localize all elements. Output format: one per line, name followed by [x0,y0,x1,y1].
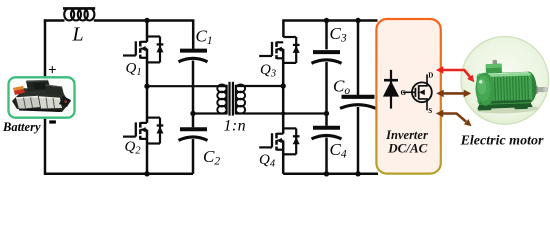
front end bell [475,72,495,106]
svg-text:DC/AC: DC/AC [387,140,427,155]
wire: bottom rail (secondary side) [283,173,378,176]
secondary winding [235,85,237,115]
capacitor C2 [179,129,208,140]
node: C3/C4 midpoint junction [324,111,329,116]
svg-text:L: L [72,24,84,46]
inductor L [63,8,95,20]
wire: capacitor midpoint to transformer primary bottom [193,112,227,114]
node: capacitor midpoint junction [190,111,195,116]
node: left midpoint junction [144,84,149,89]
transistor Q4 (MOSFET with body diode) [259,128,300,154]
node: crossover blob at Q3/Q4 leg [281,111,285,115]
wire: Q1 drain drop [146,21,149,42]
svg-text:D: D [428,72,433,80]
electric motor art [475,58,549,114]
battery box [9,77,75,117]
wire: C4 bottom to bottom rail [325,138,328,174]
svg-text:Battery: Battery [2,120,41,134]
wire: top rail from inductor to C1 corner [94,21,193,49]
wire: Co bottom to bottom rail [357,107,360,174]
node: right midpoint junction [281,83,286,88]
wire: top-left rail segment to inductor [44,19,65,22]
node: Q2 source rail junction [144,171,149,176]
arrow phase B (brown) [436,90,471,98]
arrow phase C (brown) [436,110,472,127]
motor background circle [461,37,549,125]
capacitor C4 [312,128,342,139]
node: C3 top junction [324,18,329,23]
svg-text:1:n: 1:n [224,118,247,135]
wire: Q2 source to bottom rail [146,130,149,174]
shadow [477,105,539,115]
svg-text:+: + [48,63,57,79]
wire: C3 bottom to C4 top [325,62,328,126]
wire: battery positive lead (vertical, top-left) [44,19,47,77]
diode D (inside inverter) [383,70,399,109]
wire: Q4 source to bottom rail [282,141,285,174]
transistor Q3 (MOSFET with body diode) [259,37,300,63]
mosfet M (inside inverter, circled) [403,74,432,110]
node: Co rail junction [355,171,360,176]
wire: Q3 source to Q4 drain [282,49,285,134]
wire: top-right rail from Q3 corner to inverter [283,21,377,38]
node: C4 rail junction [324,171,329,176]
wire: transformer secondary top to right midpoint [236,85,284,87]
node: Co top junction [355,18,360,23]
capacitor C3 [312,52,342,63]
arrow phase A (red) [436,66,475,82]
wire: battery negative lead (vertical, bottom-left) [44,117,47,174]
wire: bottom rail (primary side) [44,173,193,176]
svg-text:G: G [401,89,407,97]
primary winding [226,85,228,115]
feet [477,100,533,109]
battery photo art [12,80,71,112]
wire: C1 bottom to C2 top [192,61,195,128]
main finned body [476,72,532,105]
capacitor Co [340,97,376,109]
core bars [228,82,230,116]
right end cap [521,71,537,103]
inverter DC/AC block [376,19,440,174]
wire: Co top drop [357,21,360,96]
transformer T (1:n) [217,82,245,116]
wire: C3 drop from rail [325,21,328,50]
wire: Q1 source to Q2 drain (left leg midpoint) [146,49,149,123]
shaft [535,87,546,93]
transistor Q1 (MOSFET with body diode) [123,37,164,63]
capacitor C1 [179,51,208,62]
wire: left midpoint to transformer primary top [147,85,227,87]
battery minus sign [49,120,56,123]
node: Q1 drain junction [144,18,149,23]
svg-text:Electric motor: Electric motor [460,134,544,149]
svg-text:S: S [428,107,432,115]
wire: C2 bottom to bottom rail [192,139,195,174]
eye bolt [493,60,498,66]
terminal box [486,64,502,76]
transistor Q2 (MOSFET with body diode) [123,118,164,144]
wire: transformer secondary bottom to C3/C4 midpoint [236,112,327,114]
